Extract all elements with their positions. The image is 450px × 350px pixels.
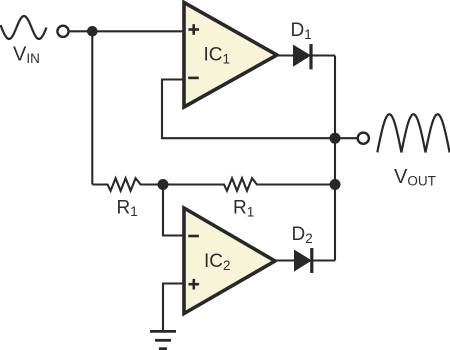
- svg-text:D2: D2: [292, 224, 313, 246]
- svg-text:VOUT: VOUT: [394, 166, 436, 189]
- svg-text:VIN: VIN: [13, 44, 40, 67]
- svg-text:D1: D1: [291, 20, 312, 42]
- svg-text:R1: R1: [117, 197, 138, 219]
- svg-text:R1: R1: [233, 198, 254, 220]
